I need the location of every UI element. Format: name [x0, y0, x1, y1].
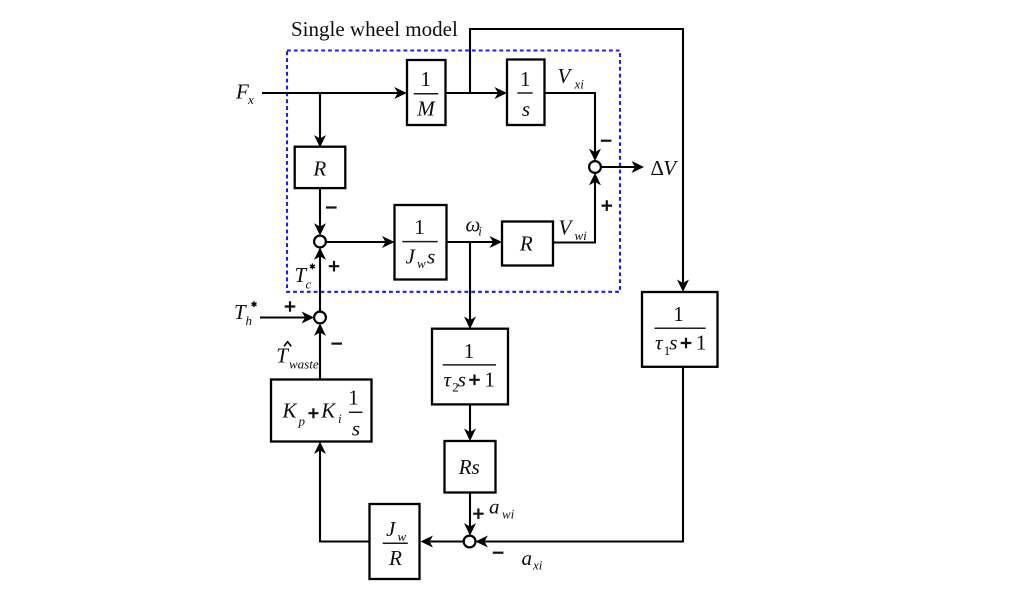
wire: takeoff down to tau2	[469, 242, 471, 326]
sign minus at S1 top	[601, 140, 612, 142]
svg-text:h: h	[246, 313, 253, 328]
svg-text:R: R	[312, 157, 326, 181]
summing junction S1 (ΔV)	[589, 161, 601, 173]
svg-text:w: w	[417, 256, 426, 271]
arrowhead ΔV output	[632, 161, 645, 173]
block 1/Jws	[395, 205, 447, 280]
svg-text:s: s	[669, 331, 677, 355]
svg-text:w: w	[398, 529, 407, 544]
arrowhead into 1/s	[495, 87, 508, 99]
arrowhead into 1/Jws	[382, 236, 395, 248]
arrowhead into JwR right	[421, 536, 434, 548]
svg-text:waste: waste	[289, 356, 319, 371]
label T_waste with hat	[284, 342, 291, 347]
svg-text:a: a	[489, 494, 500, 518]
sign plus at S1 bottom	[602, 200, 613, 211]
svg-text:Single wheel model: Single wheel model	[291, 17, 458, 41]
svg-text:xi: xi	[532, 557, 543, 572]
svg-text:R: R	[388, 546, 402, 570]
arrowhead into S1 bottom	[589, 173, 601, 186]
svg-text:1: 1	[414, 215, 425, 239]
wire: ΔV output	[601, 166, 641, 168]
block 1/s	[507, 60, 545, 126]
svg-text:1: 1	[520, 67, 531, 91]
wire: S3 output up to S2	[319, 250, 321, 312]
block Jw/R	[370, 504, 420, 579]
sign minus at a_xi	[493, 552, 504, 554]
wire: Fx input lead	[262, 92, 402, 94]
wire: Rs down to sum S4	[469, 493, 471, 534]
sign minus below R	[326, 206, 337, 208]
svg-text:1: 1	[673, 302, 684, 326]
svg-text:K: K	[320, 399, 336, 423]
svg-text:1: 1	[484, 367, 495, 391]
svg-text:wi: wi	[502, 506, 515, 521]
svg-text:V: V	[559, 216, 574, 240]
wire: JwR feedback to PI block	[320, 445, 370, 542]
wire: branch down to block R	[319, 93, 321, 143]
wire: tau2 down to Rs	[469, 405, 471, 439]
wire: 1/M output to 1/s	[446, 92, 504, 94]
sign plus at Th lead	[285, 301, 296, 312]
svg-text:M: M	[416, 97, 436, 121]
arrowhead into S4 top	[464, 523, 476, 536]
sign minus below S3	[331, 343, 342, 345]
block PI controller Kp+Ki/s	[271, 380, 372, 442]
summing junction S2	[314, 236, 326, 248]
arrowhead into S2 bottom	[314, 247, 326, 260]
svg-text:p: p	[298, 414, 306, 429]
arrowhead into S3 bottom	[314, 323, 326, 336]
arrowhead into S2 top	[314, 223, 326, 236]
wire: takeoff up and over to tau1 block	[470, 29, 683, 288]
arrowhead into PI block bottom	[314, 442, 326, 455]
svg-text:1: 1	[348, 386, 359, 410]
wire: S4 to JwR block	[424, 540, 464, 542]
block R upper	[295, 147, 346, 188]
svg-text:i: i	[338, 411, 342, 426]
arrowhead into Rs top	[464, 429, 476, 442]
svg-text:T: T	[276, 344, 289, 368]
arrowhead into 1/M	[394, 87, 407, 99]
svg-text:K: K	[282, 399, 298, 423]
arrowhead into R2	[490, 236, 503, 248]
svg-text:s: s	[458, 367, 466, 391]
arrowhead into S3 left	[302, 312, 315, 324]
block 1/M	[407, 60, 446, 125]
sign plus at S2 bottom	[329, 261, 340, 272]
block tau1	[642, 292, 718, 367]
wire: 1/Jws output to R2	[447, 241, 500, 243]
wire: PI block up to S3	[319, 326, 321, 380]
svg-text:s: s	[427, 245, 435, 269]
svg-text:R: R	[519, 232, 533, 256]
svg-text:Rs: Rs	[458, 455, 480, 479]
svg-text:1: 1	[464, 339, 475, 363]
wire: R2 output up to sum S1	[553, 176, 595, 243]
svg-text:1: 1	[696, 331, 707, 355]
svg-text:V: V	[663, 156, 678, 180]
sign plus at a_wi	[473, 508, 484, 519]
svg-text:s: s	[522, 97, 530, 121]
svg-text:1: 1	[421, 67, 432, 91]
arrowhead into S1 top	[589, 149, 601, 162]
svg-text:F: F	[235, 80, 249, 104]
arrowhead into tau2 top	[464, 317, 476, 330]
wire: tau1 down and left to S4	[478, 367, 683, 542]
summing junction S4	[464, 536, 476, 548]
wire: R output down to sum S2	[319, 188, 321, 232]
svg-text:wi: wi	[575, 228, 588, 243]
svg-text:i: i	[478, 224, 482, 239]
svg-text:Δ: Δ	[651, 156, 665, 180]
wire: S2 to 1/Jws	[326, 241, 391, 243]
arrowhead into S4 right	[475, 536, 488, 548]
svg-text:s: s	[352, 417, 360, 441]
block tau2	[432, 329, 508, 405]
svg-text:V: V	[558, 64, 573, 88]
block Rs	[445, 441, 496, 493]
wire: 1/s output down to sum S1	[545, 93, 596, 158]
svg-text:a: a	[522, 546, 533, 570]
wire: Th input lead	[260, 316, 311, 318]
dashed boundary: single wheel model	[287, 51, 620, 292]
summing junction S3	[314, 312, 326, 324]
block R right	[502, 222, 553, 266]
svg-text:xi: xi	[574, 77, 585, 92]
arrowhead into R top	[314, 135, 326, 148]
svg-text:x: x	[247, 92, 254, 107]
arrowhead into tau1 top	[677, 280, 689, 293]
svg-text:c: c	[306, 276, 312, 291]
